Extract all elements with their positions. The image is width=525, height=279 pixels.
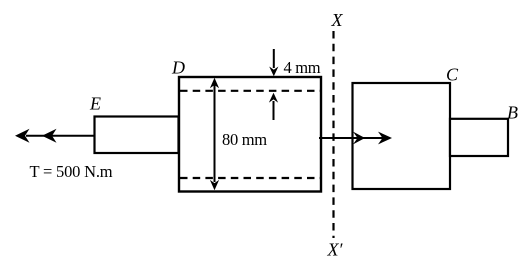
4 mm dimension arrow below (pointing up) (269, 93, 278, 120)
torque double arrow at E (pointing left) (15, 129, 94, 143)
svg-text:D: D (171, 58, 185, 78)
shaft section B (small right block) (450, 119, 508, 156)
bore top dashed line (180, 90, 320, 92)
svg-text:T = 500 N.m: T = 500 N.m (30, 162, 113, 181)
hollow shaft D (large block) (179, 77, 321, 192)
bore bottom dashed line (180, 177, 320, 179)
svg-text:X′: X′ (327, 240, 344, 260)
label D (171, 58, 185, 78)
svg-text:C: C (446, 65, 459, 85)
torque double arrow at C (pointing right) (319, 132, 392, 145)
label C (446, 65, 459, 85)
label E (89, 94, 101, 114)
svg-text:X: X (331, 10, 344, 30)
label B (507, 103, 518, 123)
section line X-X' (vertical dashed) (332, 31, 334, 238)
dimension text 4 mm (284, 58, 321, 77)
shaft section E (small left block) (95, 117, 179, 154)
svg-text:B: B (507, 103, 518, 123)
dimension text 80 mm (222, 130, 267, 149)
shaft section C (right block) (353, 83, 451, 189)
svg-text:E: E (89, 94, 101, 114)
svg-text:80 mm: 80 mm (222, 130, 267, 149)
4 mm dimension arrow above (pointing down) (269, 49, 278, 76)
label X' (327, 240, 344, 260)
80 mm double-headed dimension arrow (210, 78, 219, 191)
torque value text T = 500 N.m (30, 162, 113, 181)
svg-text:4 mm: 4 mm (284, 58, 321, 77)
label X (331, 10, 344, 30)
